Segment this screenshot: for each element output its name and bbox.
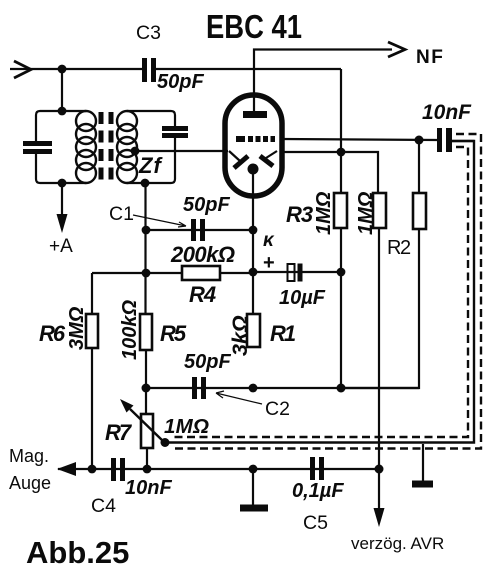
svg-text:C1: C1	[109, 203, 134, 225]
node primary top	[58, 107, 67, 116]
svg-text:Auge: Auge	[9, 473, 51, 493]
tube cathode	[248, 164, 259, 175]
wire cathode to ground	[252, 469, 254, 505]
node diode/R3 junction	[337, 148, 346, 157]
wire AVR vertical	[378, 228, 380, 510]
wire R6 bottom	[91, 348, 93, 469]
capacitor C1	[191, 219, 196, 241]
node R3/10uF	[337, 268, 346, 277]
node R7 wiper	[161, 438, 170, 447]
wire mag-eye line	[58, 468, 379, 470]
node C2 line left	[142, 384, 151, 393]
svg-text:κ: κ	[263, 230, 275, 251]
svg-text:R6: R6	[39, 321, 66, 346]
svg-text:+: +	[263, 252, 275, 274]
svg-text:Abb.25: Abb.25	[26, 535, 129, 570]
svg-text:100kΩ: 100kΩ	[119, 300, 141, 360]
input arrow	[14, 61, 31, 78]
tube grid (dashed)	[236, 136, 275, 142]
svg-text:C3: C3	[136, 22, 161, 44]
node R4/R5	[142, 269, 151, 278]
svg-text:Mag.: Mag.	[9, 446, 49, 466]
capacitor 10uF electrolytic	[288, 264, 295, 281]
svg-text:50pF: 50pF	[157, 71, 204, 93]
wire C3 to grid branch	[156, 68, 341, 70]
svg-text:R3: R3	[286, 202, 313, 227]
wire R5 bottom	[145, 350, 147, 414]
svg-text:10nF: 10nF	[125, 477, 172, 499]
wire input line	[10, 68, 142, 70]
svg-text:200kΩ: 200kΩ	[170, 242, 235, 267]
Mag Auge arrow	[57, 462, 76, 476]
capacitor 10nF (top right)	[437, 128, 442, 152]
+A arrow	[57, 214, 68, 233]
node cathode/mag line	[249, 465, 258, 474]
node secondary tap	[131, 147, 140, 156]
resistor 1MOhm second	[373, 193, 386, 228]
node R6/mag line	[88, 465, 97, 474]
node AVR junction	[375, 465, 384, 474]
wire R4 line	[92, 272, 253, 274]
svg-text:C5: C5	[303, 512, 328, 534]
resistor R6	[86, 314, 98, 348]
svg-text:50pF: 50pF	[183, 194, 230, 216]
wire +A branch	[61, 183, 63, 218]
resistor R4	[182, 266, 220, 280]
svg-text:1MΩ: 1MΩ	[313, 191, 335, 235]
svg-text:C2: C2	[265, 398, 290, 420]
svg-text:R2: R2	[387, 237, 411, 259]
ground cathode	[240, 505, 268, 512]
C2 pointer arrow	[216, 391, 262, 404]
inductor primary coil	[76, 111, 96, 183]
node grid/R2 junction	[415, 136, 424, 145]
wire shield ground lead	[422, 444, 424, 481]
svg-text:R7: R7	[105, 420, 133, 445]
svg-text:EBC 41: EBC 41	[206, 8, 302, 45]
svg-text:R4: R4	[189, 282, 216, 307]
svg-text:0,1µF: 0,1µF	[292, 480, 344, 502]
shielded AVC bus inner dashed	[172, 147, 468, 437]
resistor R1	[247, 314, 260, 347]
wire grid branch vertical	[340, 69, 342, 193]
node cathode/C2 line	[249, 384, 258, 393]
wire C1 line	[146, 229, 253, 231]
potentiometer R7	[141, 414, 153, 448]
resistor R2	[413, 193, 426, 229]
wire 10uF line	[253, 271, 341, 273]
node cathode/C1	[249, 226, 258, 235]
svg-text:3kΩ: 3kΩ	[228, 315, 252, 356]
svg-text:NF: NF	[416, 47, 444, 68]
tube anode plate	[243, 111, 267, 118]
svg-text:verzög. AVR: verzög. AVR	[351, 534, 444, 553]
wire R5 branch vertical	[144, 183, 146, 314]
resistor R5	[140, 314, 152, 350]
svg-text:10nF: 10nF	[422, 101, 472, 124]
wire C2 long line	[146, 387, 419, 389]
verzoeg AVR arrow	[374, 508, 385, 527]
node cathode/R4/10uF	[249, 268, 258, 277]
wire R3 bottom	[340, 228, 342, 388]
wire diode line right	[280, 152, 378, 193]
wire cathode vertical	[252, 174, 254, 314]
transformer secondary tank loop	[127, 111, 175, 183]
wire input junction to transformer	[61, 69, 63, 111]
wire R2 bottom to long line	[341, 229, 419, 388]
node primary bottom	[58, 179, 67, 188]
inductor secondary coil	[117, 111, 137, 183]
capacitor primary tank	[23, 141, 52, 146]
wire R2 top	[418, 140, 420, 193]
tube U1 EBC41 envelope	[225, 95, 282, 196]
svg-text:3MΩ: 3MΩ	[66, 306, 88, 350]
svg-text:C4: C4	[91, 495, 116, 517]
capacitor C2	[192, 377, 197, 399]
wire grid line to 10nF	[281, 139, 437, 140]
svg-text:1MΩ: 1MΩ	[355, 191, 377, 235]
wire anode to NF	[254, 50, 392, 113]
NF arrow	[388, 42, 405, 57]
wire R7 bottom	[146, 448, 148, 469]
node secondary bottom	[141, 179, 150, 188]
capacitor C5	[310, 457, 315, 480]
svg-text:R1: R1	[270, 321, 296, 346]
shielded AVC bus solid conductor	[165, 141, 474, 443]
wire 10nF to shielded bus	[452, 140, 474, 142]
wire R6 branch	[91, 273, 93, 314]
node C1 left	[142, 226, 151, 235]
transformer primary tank loop	[36, 111, 86, 183]
tube diode plate right	[266, 151, 277, 158]
node R3 bottom	[337, 384, 346, 393]
node R7/mag line	[143, 465, 152, 474]
svg-text:1MΩ: 1MΩ	[164, 415, 209, 438]
svg-text:Zf: Zf	[138, 153, 163, 178]
resistor R3	[334, 193, 347, 228]
shielded AVC bus outer dashed	[172, 134, 481, 449]
R7 wiper arrow	[130, 409, 164, 442]
capacitor C3	[142, 58, 147, 82]
transformer core dashed	[99, 112, 104, 182]
wire diode line left (Zf tap to tube)	[135, 150, 228, 152]
svg-text:10µF: 10µF	[279, 287, 326, 309]
capacitor C4	[111, 458, 116, 481]
svg-text:50pF: 50pF	[184, 351, 231, 373]
C1 pointer arrow	[133, 215, 186, 227]
node input junction	[58, 65, 67, 74]
tube diode plate left	[229, 151, 240, 161]
svg-text:+A: +A	[49, 236, 73, 257]
capacitor secondary tank	[162, 126, 188, 131]
svg-text:R5: R5	[160, 321, 187, 346]
ground shield	[412, 481, 433, 488]
